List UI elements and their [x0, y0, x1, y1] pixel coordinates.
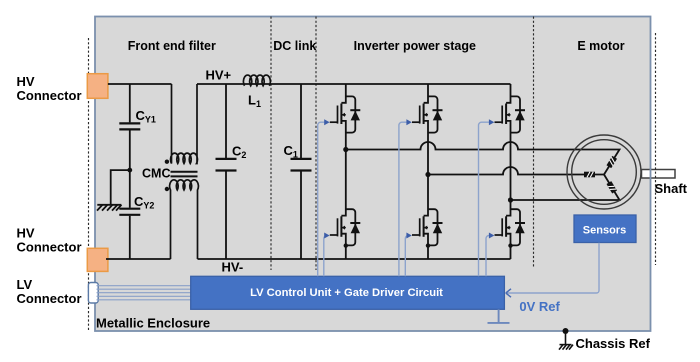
- metallic enclosure: [95, 17, 651, 332]
- svg-text:Metallic Enclosure: Metallic Enclosure: [96, 316, 210, 331]
- E motor outer circle: [567, 135, 641, 209]
- svg-text:Sensors: Sensors: [583, 225, 626, 237]
- wire phase V with crossover hop: [428, 167, 604, 174]
- sensors box: [574, 215, 636, 243]
- gate drive line upper leg 2: [399, 122, 411, 276]
- LV harness wires: [97, 286, 191, 300]
- stator winding element phase W: [607, 181, 617, 193]
- transistor Q1 upper leg 1 with freewheel diode: [330, 96, 361, 132]
- gate drive line lower leg 2: [405, 236, 410, 277]
- common mode choke CMC: bottom winding: [170, 180, 199, 259]
- gate arrow lower leg 3: [489, 233, 494, 239]
- gate drive line upper leg 1: [318, 122, 329, 276]
- svg-text:LV: LV: [17, 277, 33, 292]
- gate arrow upper leg 1: [324, 119, 329, 125]
- svg-text:CMC: CMC: [142, 167, 170, 181]
- svg-text:Front end filter: Front end filter: [128, 39, 216, 53]
- svg-text:E motor: E motor: [577, 39, 624, 53]
- svg-text:Connector: Connector: [17, 88, 82, 103]
- section separator: front end filter / DC link: [270, 17, 272, 271]
- svg-text:0V Ref: 0V Ref: [519, 299, 560, 314]
- svg-text:DC link: DC link: [273, 39, 316, 53]
- junction node (Y-capacitor midpoint): [127, 168, 132, 173]
- svg-text:LV Control Unit + Gate Driver: LV Control Unit + Gate Driver Circuit: [250, 287, 443, 299]
- svg-text:HV: HV: [17, 74, 35, 89]
- capacitor C1: [291, 84, 312, 259]
- svg-text:Inverter power stage: Inverter power stage: [354, 39, 476, 53]
- HV connector block (top): [87, 74, 108, 99]
- enclosure border over shaft: [650, 168, 652, 179]
- chassis ground symbol (front end filter): [97, 205, 122, 211]
- svg-text:HV-: HV-: [222, 260, 244, 275]
- sensor wire arrowhead: [506, 289, 511, 297]
- wire phase W: [511, 175, 620, 201]
- wire inverter leg 2 column: [424, 84, 428, 259]
- transistor Q4 lower leg 2 with freewheel diode: [412, 209, 443, 245]
- wire inverter leg 3 column: [506, 84, 510, 259]
- gate arrow lower leg 2: [406, 233, 411, 239]
- gate drive line lower leg 3: [486, 236, 493, 277]
- sensor signal wire to control unit: [507, 243, 599, 293]
- shaft: [642, 170, 676, 179]
- LV control unit box: [191, 276, 505, 309]
- node phase W junction: [508, 197, 513, 202]
- E motor inner circle: [572, 140, 637, 205]
- connector boundary dashed line (left): [88, 38, 90, 331]
- wire HV- rail right segment: [198, 258, 511, 260]
- chassis reference node: [563, 328, 569, 334]
- svg-text:Connector: Connector: [17, 291, 82, 306]
- common mode choke CMC: top winding: [171, 84, 198, 164]
- capacitor CY1: [119, 84, 140, 170]
- inductor L1: [243, 75, 270, 86]
- gate arrow lower leg 1: [324, 233, 329, 239]
- transistor Q6 lower leg 3 with freewheel diode: [495, 209, 526, 245]
- svg-text:Shaft: Shaft: [655, 181, 688, 196]
- svg-text:HV+: HV+: [206, 68, 232, 83]
- gate drive line upper leg 3: [479, 122, 493, 276]
- section separator: DC link / inverter power stage: [315, 17, 317, 271]
- capacitor CY2: [119, 170, 140, 259]
- 0V reference ground under control unit: [488, 309, 510, 323]
- node phase U junction: [343, 147, 348, 152]
- gate drive line lower leg 1: [324, 236, 328, 277]
- gate arrow upper leg 3: [489, 119, 494, 125]
- wire to chassis ground (front end filter): [111, 170, 130, 204]
- HV connector block (bottom): [87, 248, 108, 271]
- svg-text:HV: HV: [17, 226, 35, 241]
- CMC core bars: [171, 171, 198, 173]
- transistor Q5 upper leg 3 with freewheel diode: [495, 96, 526, 132]
- wire HV+ rail right segment: [197, 83, 511, 85]
- node leg 2 lower cell bottom: [426, 243, 430, 247]
- wire HV- rail left segment: [106, 258, 171, 260]
- capacitor C2: [216, 84, 237, 259]
- transistor Q3 upper leg 2 with freewheel diode: [412, 96, 443, 132]
- stator winding element phase U: [606, 156, 617, 168]
- LV connector block: [88, 283, 98, 304]
- node phase V junction: [425, 172, 430, 177]
- motor boundary dashed line (right): [655, 33, 657, 265]
- transistor Q2 lower leg 1 with freewheel diode: [330, 209, 361, 245]
- gate arrow upper leg 2: [406, 119, 411, 125]
- chassis reference ground symbol: [559, 331, 573, 350]
- wire inverter leg 1 column: [341, 84, 345, 259]
- stator winding element phase V: [584, 172, 595, 178]
- node leg 1 lower cell bottom: [344, 243, 348, 247]
- svg-text:Chassis Ref: Chassis Ref: [576, 336, 651, 351]
- CMC polarity dot (top): [165, 160, 169, 164]
- wire HV+ rail left segment: [108, 83, 172, 85]
- section separator: inverter power stage / E motor: [533, 17, 535, 268]
- wire phase U with crossover hops: [346, 142, 620, 175]
- node leg 3 lower cell bottom: [508, 243, 512, 247]
- CMC polarity dot (bottom): [165, 187, 169, 191]
- svg-text:Connector: Connector: [17, 240, 82, 255]
